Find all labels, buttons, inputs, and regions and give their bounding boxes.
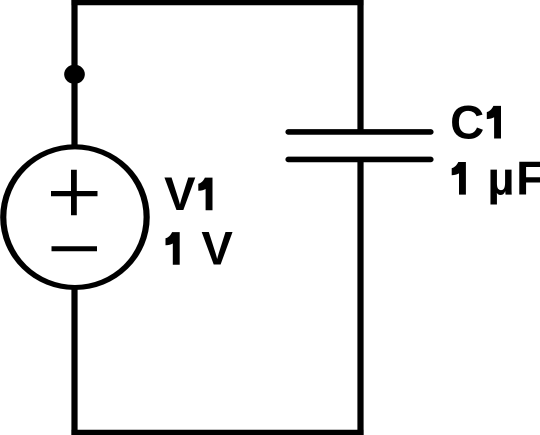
capacitor C1 bottom plate: [288, 157, 431, 163]
value 1 V: [166, 223, 234, 276]
capacitor C1 top plate: [288, 129, 431, 135]
svg-text:C: C: [450, 97, 484, 150]
value 1 uF: [452, 153, 540, 206]
wire left vertical upper: [71, 0, 77, 152]
wire right vertical upper: [357, 0, 363, 132]
label V1: [164, 168, 212, 221]
node A junction dot: [64, 65, 85, 84]
plus sign: [51, 170, 98, 216]
svg-text:µF: µF: [487, 153, 540, 206]
wire right vertical lower: [357, 159, 363, 435]
label C1: [450, 97, 501, 150]
wire top horizontal: [71, 0, 363, 5]
wire bottom horizontal: [71, 430, 363, 435]
wire left vertical lower: [71, 282, 77, 435]
svg-text:V: V: [201, 223, 233, 276]
voltage source V1 circle (anisotropic ring: black outer, white inner): [0, 144, 150, 290]
minus sign: [52, 246, 98, 251]
svg-text:V: V: [164, 168, 196, 221]
